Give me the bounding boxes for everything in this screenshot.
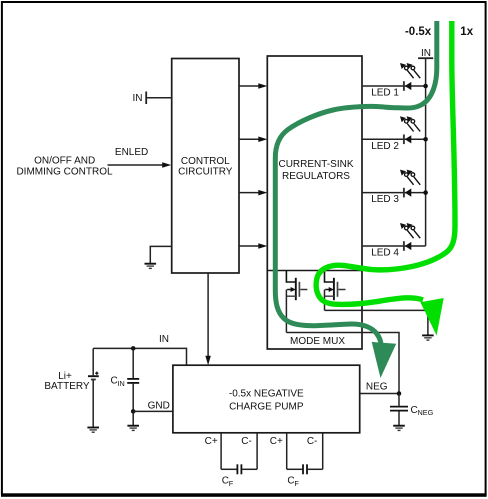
svg-text:IN: IN (133, 93, 143, 104)
battery B1 Li+ (44, 348, 98, 427)
ground (control circuitry) (145, 264, 157, 269)
svg-text:CHARGE PUMP: CHARGE PUMP (229, 401, 304, 412)
svg-text:LED 3: LED 3 (371, 194, 399, 205)
wire control to regulators arrow 4 (239, 243, 267, 249)
svg-text:CONTROL: CONTROL (181, 156, 230, 167)
svg-text:MODE MUX: MODE MUX (290, 336, 345, 347)
ground PGND (422, 335, 434, 340)
transistor Q1 (-0.5x switch) (286, 271, 307, 301)
capacitor CNEG (390, 394, 434, 426)
wire control to regulators arrow 2 (239, 137, 267, 143)
label ON/OFF AND DIMMING CONTROL (16, 155, 113, 177)
svg-text:C-: C- (241, 436, 252, 447)
current-sink regulators box U2 (267, 56, 362, 349)
wire CIN to ground (132, 411, 134, 425)
svg-text:DIMMING CONTROL: DIMMING CONTROL (16, 166, 113, 177)
mode mux divider line (267, 270, 362, 272)
wire LED anode rail (425, 58, 427, 246)
svg-text:LED 1: LED 1 (371, 88, 399, 99)
wire control to charge pump arrow (205, 273, 211, 365)
current path 1x (bright green) (316, 21, 455, 336)
wire LED4 (362, 245, 426, 247)
pin C+ (second) (270, 433, 287, 470)
LED 4 (371, 223, 420, 259)
svg-text:IN: IN (118, 379, 125, 388)
capacitor CF (second) (287, 464, 323, 488)
svg-text:F: F (229, 479, 234, 488)
capacitor CF (first) (221, 464, 257, 488)
pin C+ (first) (205, 433, 221, 470)
wire LED3 (362, 192, 426, 194)
wire control ground stub (150, 246, 171, 263)
wire control to regulators arrow 1 (239, 83, 267, 89)
wire GND to charge pump (133, 410, 173, 412)
svg-text:C+: C+ (270, 436, 283, 447)
junction dot LED3/IN rail (423, 190, 428, 195)
svg-text:1x: 1x (460, 26, 473, 38)
svg-text:C-: C- (307, 436, 318, 447)
svg-text:C+: C+ (205, 436, 218, 447)
svg-text:LED 2: LED 2 (371, 141, 399, 152)
svg-text:IN: IN (159, 334, 169, 345)
control circuitry box U1 (172, 59, 239, 274)
svg-text:REGULATORS: REGULATORS (282, 171, 350, 182)
junction dot IN/CIN (131, 346, 136, 351)
wire LED2 (362, 138, 426, 140)
junction dot LED2/IN rail (423, 137, 428, 142)
svg-text:F: F (294, 479, 299, 488)
charge pump box U3 (173, 365, 360, 433)
current path -0.5x (dark green) (275, 21, 437, 378)
junction dot NEG (397, 391, 402, 396)
capacitor CIN (111, 348, 140, 411)
wire mode mux output to NEG (286, 333, 399, 394)
LED 1 (371, 63, 420, 99)
ground (battery) (87, 428, 99, 433)
wire Q2 source down (324, 290, 326, 311)
wire LED1 (362, 85, 426, 87)
svg-text:BATTERY: BATTERY (44, 381, 90, 392)
svg-text:-0.5x NEGATIVE: -0.5x NEGATIVE (229, 388, 304, 399)
wire ENLED arrow into control box (108, 162, 172, 167)
LED 3 (371, 170, 420, 206)
svg-text:ON/OFF AND: ON/OFF AND (34, 155, 95, 166)
wire IN rail battery to charge pump (93, 348, 186, 365)
svg-text:-0.5x: -0.5x (405, 26, 432, 38)
junction dot CIN/GND (131, 409, 136, 414)
wire NEG output (360, 393, 399, 395)
wire Q2 to PGND (325, 310, 428, 334)
ground (CNEG) (393, 426, 405, 431)
transistor Q2 (1x switch) (325, 271, 346, 301)
pin C- (second) (307, 433, 323, 470)
junction dot LED1/IN rail (423, 84, 428, 89)
svg-text:CURRENT-SINK: CURRENT-SINK (278, 159, 353, 170)
svg-text:CIRCUITRY: CIRCUITRY (178, 167, 233, 178)
wire IN to control box (146, 97, 172, 99)
ground (CIN) (127, 426, 139, 431)
pin C- (first) (241, 433, 257, 470)
svg-text:GND: GND (148, 401, 170, 412)
node IN (control input) (133, 92, 147, 105)
node IN (LED anode rail, top) (418, 48, 433, 59)
svg-text:LED 4: LED 4 (371, 248, 399, 259)
svg-text:NEG: NEG (418, 408, 434, 417)
svg-text:NEG: NEG (366, 382, 388, 393)
svg-text:ENLED: ENLED (115, 147, 148, 158)
wire Q1 source to NEG rail (285, 290, 287, 333)
LED 2 (371, 116, 420, 152)
wire control to regulators arrow 3 (239, 190, 267, 196)
